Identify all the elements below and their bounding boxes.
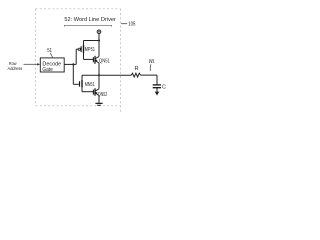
svg-text:MN51: MN51	[85, 82, 95, 88]
svg-text:QN52: QN52	[98, 92, 108, 98]
svg-text:105: 105	[128, 22, 135, 28]
svg-text:51: 51	[47, 48, 52, 54]
svg-text:Address: Address	[8, 66, 23, 71]
svg-text:WL: WL	[149, 59, 155, 65]
svg-text:Gate: Gate	[42, 67, 52, 73]
svg-text:C: C	[162, 85, 166, 91]
svg-text:QN51: QN51	[99, 59, 110, 65]
svg-text:MP51: MP51	[85, 47, 96, 53]
svg-text:52: Word Line Driver: 52: Word Line Driver	[64, 17, 116, 23]
svg-text:R: R	[135, 66, 139, 72]
